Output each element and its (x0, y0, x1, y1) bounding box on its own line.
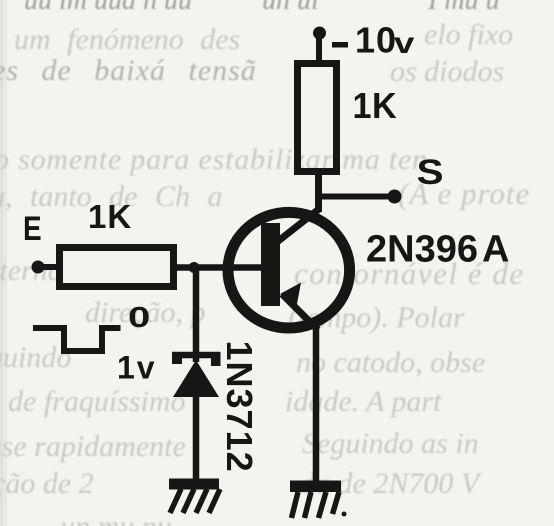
svg-text:eterna: eterna (0, 254, 63, 287)
svg-text:0: 0 (128, 301, 150, 333)
svg-text:uu im uud n uu: uu im uud n uu (24, 0, 192, 16)
svg-text:1v: 1v (117, 350, 157, 386)
svg-text:I mu u: I mu u (427, 0, 500, 16)
svg-text:sse rapidamente: sse rapidamente (0, 430, 186, 463)
svg-text:elo fixo: elo fixo (424, 18, 513, 51)
svg-text:un mu nu: un mu nu (60, 510, 172, 526)
svg-text:2N396A: 2N396A (366, 229, 509, 271)
svg-text:un ui: un ui (262, 0, 319, 16)
svg-text:1K: 1K (353, 86, 398, 126)
svg-text:es de baixá tensã: es de baixá tensã (0, 54, 257, 87)
svg-text:10: 10 (355, 20, 397, 61)
svg-text:idade. A part: idade. A part (285, 385, 442, 418)
svg-text:Seguindo as in: Seguindo as in (302, 427, 479, 460)
svg-text:o somente para estabilizar ma: o somente para estabilizar ma ten (0, 143, 428, 176)
svg-text:S: S (417, 154, 444, 193)
svg-text:um fenómeno des: um fenómeno des (14, 23, 240, 56)
svg-text:E: E (23, 209, 42, 247)
svg-text:no catodo, obse: no catodo, obse (296, 346, 485, 379)
svg-text:v: v (394, 27, 415, 60)
svg-text:1N3712: 1N3712 (219, 341, 260, 473)
svg-text:guindo: guindo (0, 341, 71, 374)
svg-text:1K: 1K (88, 198, 132, 235)
svg-text:ção de 2: ção de 2 (0, 467, 94, 500)
svg-text:de fraquíssimo: de fraquíssimo (8, 385, 186, 418)
